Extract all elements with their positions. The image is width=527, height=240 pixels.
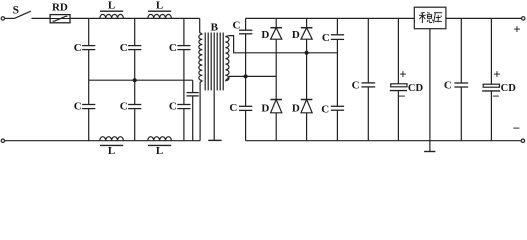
regulator text 稳 (hand strokes)	[419, 12, 433, 23]
electrolytic capacitor CD at 398.4	[397, 18, 399, 83]
diode D3	[270, 99, 282, 101]
svg-text:C: C	[120, 101, 128, 113]
node dot AC2 x cap branch	[244, 74, 248, 78]
inductor L1 top	[100, 14, 124, 18]
wire	[5, 17, 15, 19]
fuse RD	[50, 15, 70, 23]
inductor L4 bottom	[148, 137, 172, 141]
svg-text:C: C	[322, 32, 330, 44]
svg-text:S: S	[13, 5, 19, 17]
svg-text:C: C	[233, 20, 241, 32]
svg-text:C: C	[321, 103, 329, 115]
svg-text:−: −	[398, 89, 405, 104]
svg-text:C: C	[444, 79, 452, 91]
capacitor C bottom of 337.4 branch	[331, 105, 344, 107]
terminal top-left	[1, 17, 4, 20]
regulator box 稳压	[414, 7, 446, 29]
diode D2	[301, 27, 313, 29]
diode D1	[270, 27, 282, 29]
svg-text:C: C	[74, 42, 82, 54]
capacitor C col1 bottom	[88, 80, 90, 104]
wire	[245, 34, 247, 107]
diode D4	[301, 99, 313, 101]
snubber branch 337.4: capacitor C top	[336, 18, 338, 34]
capacitor C col3 bottom	[183, 80, 185, 104]
node dot AC1 x leg2	[305, 51, 309, 55]
regulator ground lead	[429, 29, 431, 152]
snubber branch at 245.6: capacitor C top	[245, 18, 247, 30]
svg-text:CD: CD	[408, 83, 424, 94]
svg-text:L: L	[108, 0, 115, 12]
svg-text:−: −	[492, 89, 499, 104]
capacitor C on mid-rail drop	[192, 80, 194, 92]
svg-text:RD: RD	[52, 2, 68, 14]
bridge leg2 wire	[306, 18, 308, 27]
capacitor C col3 top	[183, 18, 185, 45]
inductor L2 top	[148, 14, 172, 18]
svg-text:D: D	[261, 102, 269, 114]
svg-text:B: B	[211, 22, 219, 34]
core line extended to ground stub	[213, 33, 215, 141]
node dot middle rail	[133, 78, 137, 82]
top rail right section	[246, 17, 415, 19]
ground stub bar	[424, 151, 435, 153]
svg-text:D: D	[292, 29, 300, 41]
middle rail	[89, 79, 193, 81]
bottom rail	[5, 140, 201, 142]
capacitor C col2 bottom	[134, 80, 136, 104]
filter capacitor C at 368.3	[367, 18, 369, 83]
svg-text:L: L	[156, 0, 163, 12]
transformer core	[204, 33, 206, 91]
svg-text:D: D	[292, 102, 300, 114]
output terminal +	[522, 17, 525, 20]
inductor L3 bottom	[100, 137, 124, 141]
wire	[32, 17, 51, 19]
bridge leg1 wire	[275, 18, 277, 27]
svg-text:L: L	[108, 145, 115, 157]
primary bottom lead	[200, 81, 202, 141]
svg-text:L: L	[156, 145, 163, 157]
wire top rail to transformer	[70, 17, 200, 19]
secondary top lead / AC1 line	[225, 36, 337, 53]
terminal bottom-left	[1, 139, 4, 142]
svg-text:+: +	[493, 67, 500, 82]
transformer secondary winding	[225, 37, 229, 81]
filter capacitor C at 461.3	[460, 18, 462, 83]
regulator text 压 (hand strokes)	[434, 13, 443, 23]
bottom rail right section	[246, 140, 522, 142]
svg-text:C: C	[120, 42, 128, 54]
svg-text:−: −	[513, 121, 520, 136]
capacitor C bottom of 245.6 branch	[239, 105, 252, 107]
svg-text:C: C	[169, 42, 177, 54]
transformer B primary lead	[200, 18, 203, 34]
svg-text:+: +	[399, 67, 406, 82]
capacitor C col1 top	[88, 18, 90, 45]
svg-text:C: C	[352, 80, 360, 92]
svg-text:C: C	[169, 101, 177, 113]
svg-text:D: D	[261, 29, 269, 41]
capacitor C col2 top	[134, 18, 136, 45]
switch S blade	[14, 11, 31, 18]
svg-text:C: C	[74, 101, 82, 113]
output terminal -	[521, 139, 524, 142]
svg-text:CD: CD	[501, 83, 517, 94]
secondary bottom lead / AC2 line	[225, 76, 276, 80]
transformer B primary winding	[199, 34, 202, 80]
electrolytic capacitor CD at 491.4	[490, 18, 492, 84]
svg-text:C: C	[229, 102, 237, 114]
svg-text:+: +	[513, 21, 520, 36]
top rail after regulator	[446, 17, 522, 19]
